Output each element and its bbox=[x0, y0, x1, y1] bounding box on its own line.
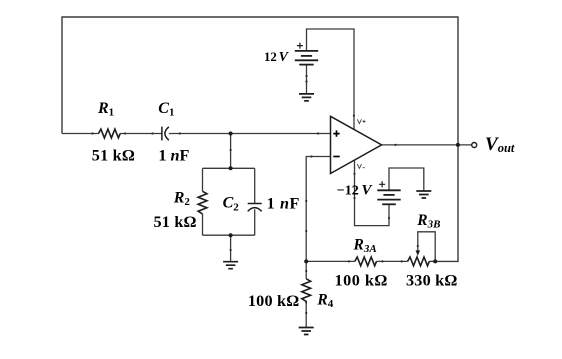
wire 12V battery bottom to ground bbox=[306, 65, 308, 94]
wire -12V battery bottom to op-amp V- bbox=[355, 160, 390, 225]
wire right rail lower (output node to R3B node) bbox=[435, 145, 458, 262]
svg-text:−12: −12 bbox=[337, 183, 359, 198]
wire op-amp minus input to left and down to node B bbox=[306, 157, 330, 262]
ground under R4 bbox=[299, 328, 314, 335]
wire top feedback rail bbox=[62, 17, 458, 145]
svg-text:100 kΩ: 100 kΩ bbox=[335, 272, 388, 290]
node B feedback junction bbox=[304, 259, 308, 263]
op-amp pin label V+ bbox=[357, 119, 365, 123]
wire -12V battery top to ground bbox=[389, 168, 424, 191]
op-amp plus input symbol bbox=[333, 130, 339, 136]
node A main wire junction bbox=[229, 132, 233, 136]
battery V1 plus sign bbox=[297, 43, 303, 49]
wire R2/C2 parallel box bbox=[203, 168, 255, 235]
ground under battery V1 bbox=[299, 94, 314, 101]
op-amp minus input symbol bbox=[333, 156, 339, 158]
wire R3B right lead to node C bbox=[429, 260, 435, 262]
svg-text:1 nF: 1 nF bbox=[158, 147, 189, 165]
wire RC box bottom to ground bbox=[230, 235, 232, 262]
capacitor C2 bbox=[248, 204, 262, 212]
op-amp pin label V- bbox=[357, 164, 364, 168]
ground under R2/C2 bbox=[223, 262, 238, 269]
wire main input line (left rail to op-amp + input) bbox=[62, 133, 331, 135]
wire R4 bottom lead to ground bbox=[305, 304, 307, 328]
node C R3B junction bbox=[433, 259, 437, 263]
svg-text:51 kΩ: 51 kΩ bbox=[154, 213, 197, 231]
svg-text:12: 12 bbox=[264, 50, 277, 64]
wire R4 top lead from node B bbox=[305, 261, 307, 278]
output terminal circle bbox=[472, 143, 477, 148]
svg-text:V: V bbox=[279, 50, 290, 65]
capacitor C1 bbox=[162, 127, 169, 141]
svg-text:1 nF: 1 nF bbox=[267, 195, 300, 213]
wire 12V supply loop to op-amp V+ bbox=[307, 29, 355, 130]
battery V2 plus sign bbox=[379, 181, 385, 187]
ground right of battery V2 bbox=[416, 191, 431, 198]
resistor R2 bbox=[198, 191, 207, 214]
svg-text:100 kΩ: 100 kΩ bbox=[248, 292, 300, 310]
wire anchor dots bbox=[91, 75, 419, 314]
resistor R4 bbox=[302, 279, 311, 304]
op-amp U1 bbox=[331, 116, 382, 173]
battery V1 12V bbox=[295, 51, 318, 65]
node RC box top junction bbox=[229, 166, 233, 170]
resistor R3A bbox=[355, 257, 377, 266]
svg-text:51 kΩ: 51 kΩ bbox=[92, 147, 135, 165]
node output junction bbox=[456, 143, 460, 147]
wire R3A to R3B bbox=[376, 260, 407, 262]
node RC box bottom junction bbox=[229, 233, 233, 237]
wire node B to R3A bbox=[306, 260, 355, 262]
wire branch from node A down to RC box top bbox=[230, 134, 232, 169]
resistor R1 bbox=[99, 129, 121, 138]
battery V2 -12V bbox=[377, 190, 400, 204]
resistor R3B (rheostat) bbox=[408, 257, 430, 266]
svg-text:330 kΩ: 330 kΩ bbox=[406, 272, 458, 290]
R3B wiper arrowhead bbox=[416, 250, 421, 255]
wire R3B wiper loop bbox=[418, 232, 435, 262]
wire op-amp output to Vout terminal bbox=[382, 144, 472, 146]
